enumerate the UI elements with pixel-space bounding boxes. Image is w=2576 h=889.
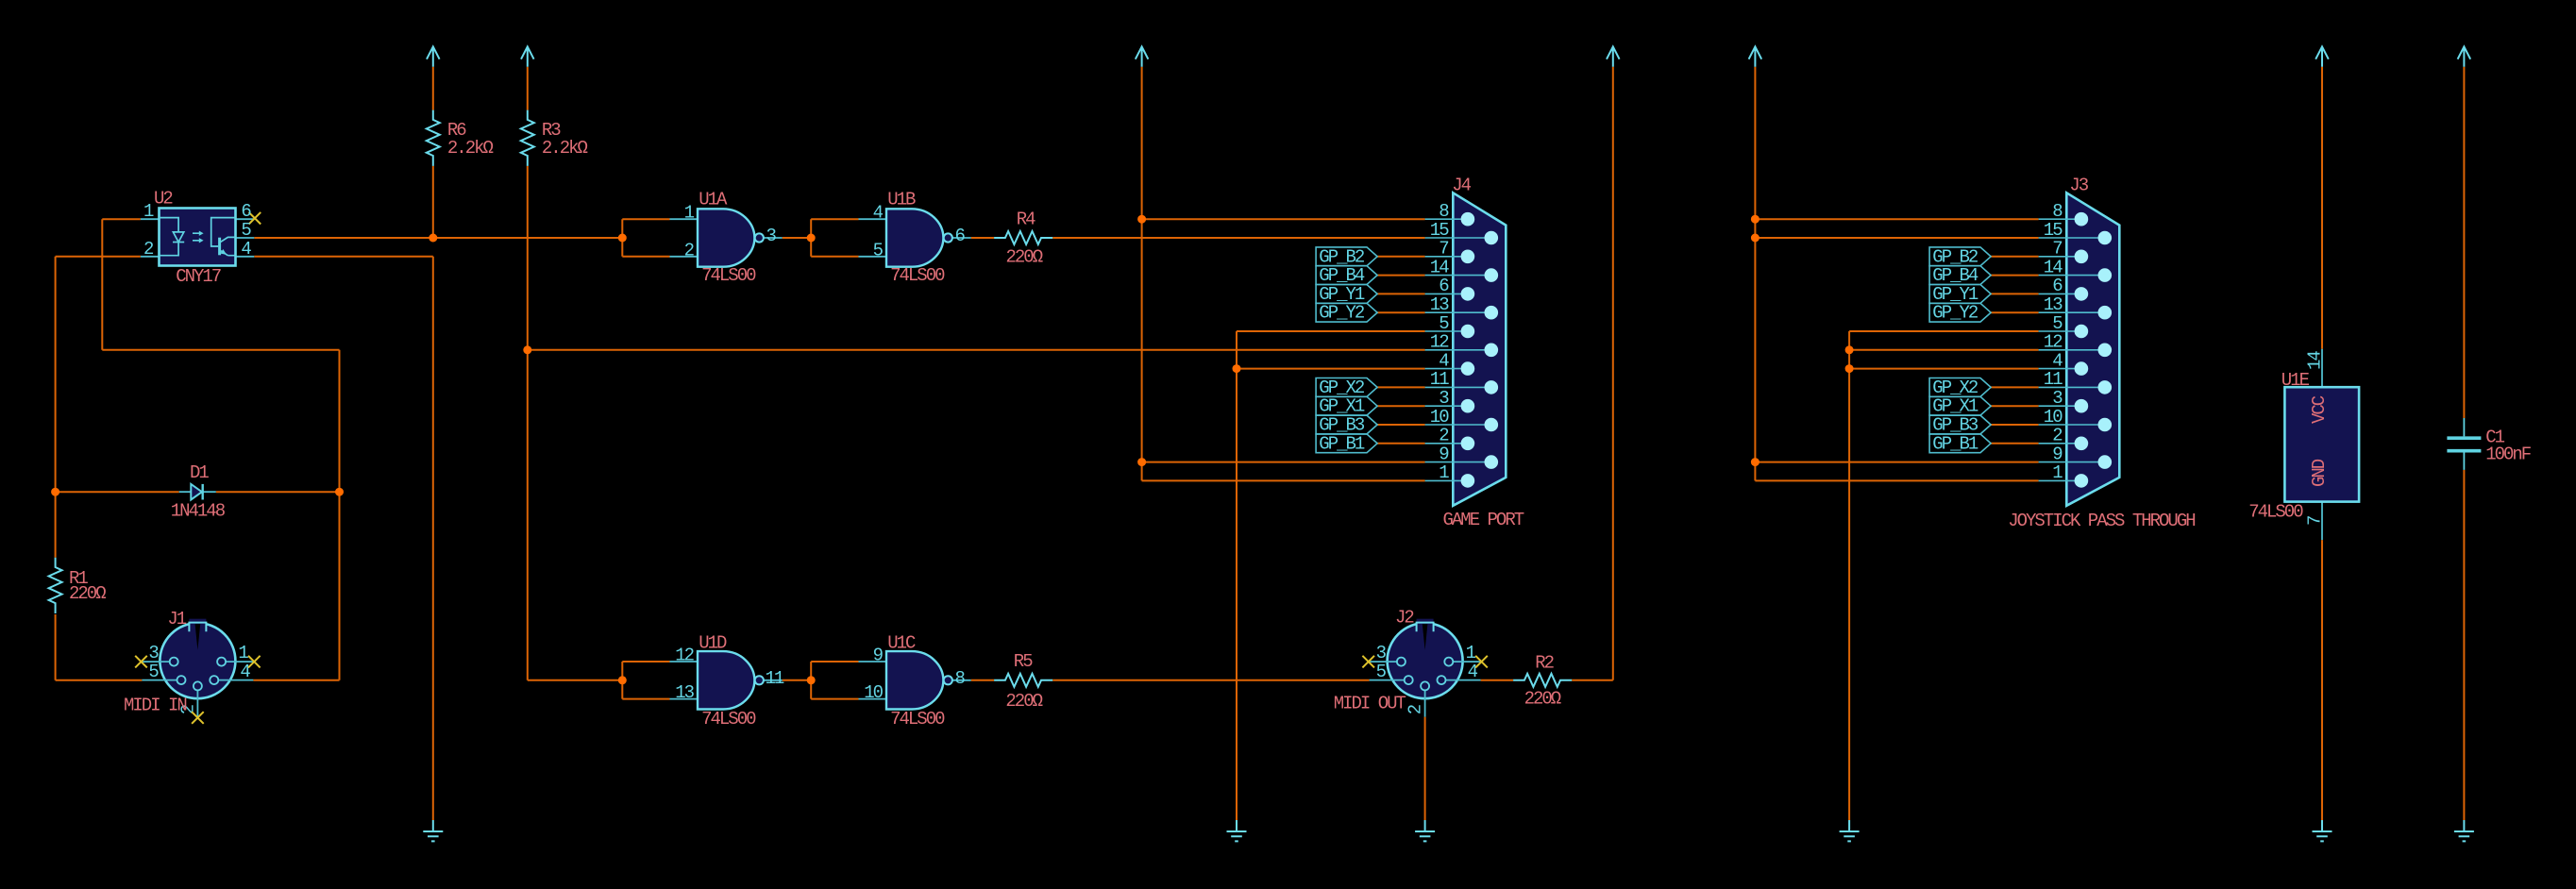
power unit U1E 74LS00 — [2284, 349, 2359, 540]
svg-text:6: 6 — [241, 201, 251, 222]
svg-text:220Ω: 220Ω — [1006, 247, 1043, 268]
wire R4 to J4 pin15 — [1052, 237, 1424, 239]
wire J4 pin4 — [1237, 368, 1425, 370]
global label GP_B3 (J4 pin10) — [1316, 415, 1377, 436]
junction U1B inputs — [807, 234, 816, 243]
junction J4 pin4 gnd — [1233, 364, 1241, 373]
svg-text:1: 1 — [684, 203, 695, 224]
ground below J2 pin2 — [1415, 820, 1435, 841]
wire to J3 pin8 — [1755, 218, 2038, 220]
wire VCC to R3 top — [527, 67, 529, 110]
svg-text:GP_B4: GP_B4 — [1932, 265, 1978, 286]
wire U1D output to U1C inputs — [783, 679, 812, 681]
label U2 pin numbers — [143, 201, 251, 260]
svg-text:1N4148: 1N4148 — [171, 501, 226, 522]
junction U1D inputs — [618, 676, 627, 684]
svg-text:GP_B4: GP_B4 — [1319, 265, 1365, 286]
svg-text:5: 5 — [873, 240, 884, 260]
svg-text:12: 12 — [675, 646, 694, 666]
wire corner to J1 pin5 — [56, 679, 143, 681]
svg-text:GP_Y1: GP_Y1 — [1319, 284, 1365, 305]
VCC arrow above R3 — [521, 46, 534, 66]
svg-text:GP_B3: GP_B3 — [1932, 415, 1978, 436]
svg-text:GP_B1: GP_B1 — [1319, 433, 1365, 454]
global label GP_Y2 (J3 pin13) — [1929, 303, 1991, 324]
global label GP_B4 (J4 pin14) — [1316, 265, 1377, 286]
wire U2 pin1 to left column — [102, 218, 141, 220]
svg-text:GP_B2: GP_B2 — [1932, 246, 1978, 267]
junction J3 pin12 gnd — [1845, 345, 1854, 354]
svg-text:220Ω: 220Ω — [1005, 691, 1042, 712]
svg-text:GP_B3: GP_B3 — [1319, 415, 1365, 436]
ground below C1 — [2454, 820, 2474, 841]
svg-text:220Ω: 220Ω — [1524, 688, 1561, 709]
diode D1 1N4148 — [179, 484, 216, 500]
svg-text:GP_X2: GP_X2 — [1319, 377, 1365, 398]
DB15 connector J4 GAME PORT — [1425, 193, 1507, 506]
resistor R2 body — [1513, 674, 1572, 687]
svg-text:2.2kΩ: 2.2kΩ — [542, 138, 588, 159]
wire GP_B1 to J4 pin2 — [1377, 443, 1425, 444]
wire GP_Y2 to J4 pin13 — [1377, 311, 1425, 313]
resistor R6 body — [427, 110, 440, 166]
junction U1C inputs — [807, 676, 816, 684]
junction J3 pin9 — [1751, 458, 1759, 466]
svg-text:R4: R4 — [1017, 209, 1035, 229]
wire to J4 pin8 — [1142, 218, 1425, 220]
svg-text:J2: J2 — [1395, 608, 1414, 629]
resistor R1 body — [49, 558, 62, 613]
VCC arrow above U1E — [2315, 46, 2329, 66]
ground below J3 column — [1840, 820, 1860, 841]
wire GP_X1 to J3 pin3 — [1991, 405, 2039, 407]
svg-text:U1A: U1A — [699, 189, 728, 210]
wire U1A output to U1B inputs — [783, 237, 812, 239]
no-connect X on J1 pin 3 — [135, 656, 147, 668]
svg-text:GP_Y2: GP_Y2 — [1932, 303, 1978, 324]
svg-text:U1E: U1E — [2281, 370, 2310, 391]
no-connect X on J1 pin 2 — [192, 712, 204, 724]
svg-text:GP_Y2: GP_Y2 — [1319, 303, 1365, 324]
svg-text:2.2kΩ: 2.2kΩ — [447, 138, 494, 159]
svg-text:74LS00: 74LS00 — [890, 709, 945, 730]
svg-text:U2: U2 — [154, 189, 173, 210]
global label GP_B3 (J3 pin10) — [1929, 415, 1991, 436]
svg-text:R2: R2 — [1535, 653, 1554, 674]
wire to J3 pin9 — [1755, 461, 2038, 463]
ground below J4 column — [1227, 820, 1247, 841]
svg-text:GP_X2: GP_X2 — [1932, 377, 1978, 398]
junction U1A inputs — [618, 234, 627, 243]
svg-text:GP_Y1: GP_Y1 — [1932, 284, 1978, 305]
wire GP_B1 to J3 pin2 — [1991, 443, 2039, 444]
wire J3 pin5 to ground column — [1849, 330, 2039, 332]
svg-text:7: 7 — [2305, 516, 2326, 526]
VCC arrow above R2 column — [1607, 46, 1620, 66]
VCC arrow above J3 column — [1749, 46, 1762, 66]
svg-text:J4: J4 — [1452, 175, 1471, 195]
label U1D pin numbers — [675, 646, 784, 704]
wire GP_B3 to J3 pin10 — [1991, 424, 2039, 426]
svg-text:14: 14 — [2305, 351, 2326, 370]
global label GP_X2 (J4 pin11) — [1316, 377, 1377, 398]
ground below U2 pin4 column — [423, 820, 443, 841]
wire VCC to C1 top — [2463, 67, 2465, 418]
wire VCC column x=1209.6 — [1141, 67, 1143, 481]
junction J3 pin4 gnd — [1845, 364, 1854, 373]
wire GP_B2 to J4 pin7 — [1377, 256, 1425, 258]
svg-text:4: 4 — [873, 203, 884, 224]
wire U1A input tie bracket — [622, 219, 669, 257]
wire GP_Y1 to J4 pin6 — [1377, 293, 1425, 294]
wire U1C input tie bracket — [811, 662, 858, 699]
wire to J4 pin9 — [1142, 461, 1425, 463]
svg-text:GND: GND — [2309, 459, 2330, 487]
wire J3 pin12 — [1849, 349, 2039, 351]
svg-text:GAME PORT: GAME PORT — [1443, 510, 1524, 530]
label U1C pin numbers — [864, 646, 965, 704]
no-connect X on J2 pin 1 — [1475, 656, 1488, 668]
global label GP_B2 (J4 pin7) — [1316, 246, 1377, 267]
global label GP_X2 (J3 pin11) — [1929, 377, 1991, 398]
junction R3 / J4 pin12 net — [523, 345, 531, 354]
wire U2 pin5 to U1A inputs — [254, 237, 622, 239]
wire column x=359.5 up to D1 row — [339, 492, 341, 680]
wire VCC column x=1708.8 — [1612, 67, 1614, 680]
junction D1 right — [335, 488, 344, 496]
svg-text:9: 9 — [873, 646, 884, 666]
label U1A pin numbers — [684, 203, 777, 261]
wire D1 anode side — [56, 491, 179, 493]
global label GP_X1 (J4 pin3) — [1316, 396, 1377, 417]
junction J3 pin15 VCC — [1751, 234, 1759, 243]
label U1B pin numbers — [873, 203, 966, 261]
svg-text:VCC: VCC — [2309, 395, 2330, 424]
wire D1 junction down to R1 — [55, 492, 57, 558]
svg-text:5: 5 — [241, 220, 251, 241]
svg-text:3: 3 — [766, 226, 777, 246]
resistor R4 body — [994, 231, 1052, 244]
junction R6 / pin5 net — [429, 234, 437, 243]
svg-text:74LS00: 74LS00 — [2248, 501, 2303, 522]
svg-text:8: 8 — [955, 668, 966, 689]
VCC arrow above C1 — [2458, 46, 2471, 66]
wire GP_X2 to J4 pin11 — [1377, 386, 1425, 388]
wire U2 pin4 to ground column — [254, 256, 433, 258]
svg-text:MIDI OUT: MIDI OUT — [1334, 693, 1406, 713]
wire C1 bottom to ground — [2463, 470, 2465, 820]
VCC arrow above R6 — [427, 46, 440, 66]
wire R3 bottom down to lower row — [527, 166, 529, 680]
svg-text:GP_X1: GP_X1 — [1319, 396, 1365, 417]
wire VCC column x=1859.4 — [1754, 67, 1756, 481]
DB15 connector J3 JOYSTICK PASS THROUGH — [2039, 193, 2120, 506]
NAND gate U1D — [670, 651, 783, 709]
no-connect X on J1 pin 1 — [248, 656, 261, 668]
wire J4 pin5 to ground column — [1237, 330, 1425, 332]
svg-text:D1: D1 — [190, 462, 209, 483]
wire to J4 pin1 — [1142, 479, 1425, 481]
global label GP_Y2 (J4 pin13) — [1316, 303, 1377, 324]
wire U1C output to R5 — [971, 679, 994, 681]
svg-text:74LS00: 74LS00 — [890, 265, 945, 286]
wire R6 bottom to pin5 net — [432, 166, 434, 238]
wire J2 pin4 to R2 — [1481, 679, 1514, 681]
wire to J3 pin1 — [1755, 479, 2038, 481]
wire GP_X1 to J4 pin3 — [1377, 405, 1425, 407]
resistor R3 body — [521, 110, 534, 166]
wire R5 to J2 pin5 — [1052, 679, 1369, 681]
DIN-5 connector J2 MIDI OUT — [1370, 619, 1481, 717]
capacitor C1 100nF — [2447, 418, 2481, 470]
NAND gate U1A — [670, 209, 783, 266]
global label GP_Y1 (J3 pin6) — [1929, 284, 1991, 305]
wire D1 cathode side — [216, 491, 340, 493]
wire U1D input tie bracket — [622, 662, 669, 699]
wire R3 column to U1D inputs — [528, 679, 623, 681]
svg-text:13: 13 — [675, 682, 694, 703]
no-connect X on J2 pin 3 — [1362, 656, 1374, 668]
svg-text:U1B: U1B — [887, 189, 916, 210]
global label GP_B4 (J3 pin14) — [1929, 265, 1991, 286]
optocoupler U2 CNY17 — [141, 209, 254, 266]
NAND gate U1B — [859, 209, 971, 266]
wire GP_Y1 to J3 pin6 — [1991, 293, 2039, 294]
svg-text:4: 4 — [241, 239, 251, 260]
wire to J3 pin15 — [1755, 237, 2038, 239]
NAND gate U1C — [859, 651, 971, 709]
svg-text:6: 6 — [955, 226, 966, 246]
svg-text:74LS00: 74LS00 — [701, 265, 756, 286]
global label GP_B1 (J3 pin2) — [1929, 433, 1991, 454]
svg-text:1: 1 — [143, 201, 154, 222]
wire U2 pin2 to far-left column — [56, 256, 141, 258]
wire GP_B4 to J3 pin14 — [1991, 275, 2039, 277]
wire R2 to VCC column — [1572, 679, 1613, 681]
svg-text:220Ω: 220Ω — [69, 583, 106, 604]
svg-text:J1: J1 — [167, 609, 186, 629]
junction J3 pin8 VCC — [1751, 215, 1759, 224]
svg-text:U1D: U1D — [699, 632, 727, 653]
wire U1B input tie bracket — [811, 219, 858, 257]
wire GP_Y2 to J3 pin13 — [1991, 311, 2039, 313]
wire U1B output to R4 — [971, 237, 994, 239]
wire GP_B4 to J4 pin14 — [1377, 275, 1425, 277]
svg-text:CNY17: CNY17 — [176, 266, 221, 287]
svg-text:100nF: 100nF — [2485, 444, 2532, 465]
wire GP_X2 to J3 pin11 — [1991, 386, 2039, 388]
no-connect X on U2 pin 6 — [249, 212, 261, 225]
junction J4 pin8 VCC — [1137, 215, 1146, 224]
junction D1 left — [51, 488, 59, 496]
global label GP_B2 (J3 pin7) — [1929, 246, 1991, 267]
wire x=359.5 down to D1 row — [339, 350, 341, 492]
wire ground column x=1310 down — [1236, 331, 1237, 820]
resistor R5 body — [994, 674, 1052, 687]
wire R3 net to J4 pin12 — [528, 349, 1425, 351]
ground below U1E pin7 — [2313, 820, 2332, 841]
svg-text:GP_B1: GP_B1 — [1932, 433, 1978, 454]
wire far-left column down to D1 row — [55, 257, 57, 492]
wire J3 pin4 — [1849, 368, 2039, 370]
svg-text:11: 11 — [766, 668, 784, 689]
wire R1 bottom to corner — [55, 614, 57, 680]
svg-text:10: 10 — [864, 682, 883, 703]
wire J2 pin2 to ground — [1424, 717, 1426, 820]
svg-text:JOYSTICK PASS THROUGH: JOYSTICK PASS THROUGH — [2008, 511, 2195, 531]
svg-text:GP_B2: GP_B2 — [1319, 246, 1365, 267]
svg-text:74LS00: 74LS00 — [701, 709, 756, 730]
junction J4 pin9 — [1137, 458, 1146, 466]
wire VCC to U1E pin14 — [2321, 67, 2323, 349]
global label GP_Y1 (J4 pin6) — [1316, 284, 1377, 305]
wire J1 pin4 to column x=359.5 — [253, 679, 339, 681]
wire ground column x=458.8 down — [432, 257, 434, 820]
svg-text:2: 2 — [684, 240, 695, 260]
svg-text:2: 2 — [143, 239, 154, 260]
wire GP_B3 to J4 pin10 — [1377, 424, 1425, 426]
global label GP_X1 (J3 pin3) — [1929, 396, 1991, 417]
wire ground column x=1959.1 down — [1848, 331, 1850, 820]
wire U1E pin7 to ground — [2321, 540, 2323, 820]
VCC arrow above J4 column — [1136, 46, 1149, 66]
svg-text:MIDI IN: MIDI IN — [124, 696, 186, 716]
wire left column x=108 down — [101, 219, 103, 350]
svg-text:GP_X1: GP_X1 — [1932, 396, 1978, 417]
wire horizontal y=370.8 to x=359.5 — [102, 349, 339, 351]
svg-text:J3: J3 — [2069, 175, 2088, 195]
global label GP_B1 (J4 pin2) — [1316, 433, 1377, 454]
svg-text:U1C: U1C — [887, 632, 916, 653]
wire GP_B2 to J3 pin7 — [1991, 256, 2039, 258]
DIN-5 connector J1 MIDI IN — [142, 619, 253, 717]
wire VCC to R6 top — [432, 67, 434, 110]
svg-text:R5: R5 — [1014, 651, 1033, 672]
